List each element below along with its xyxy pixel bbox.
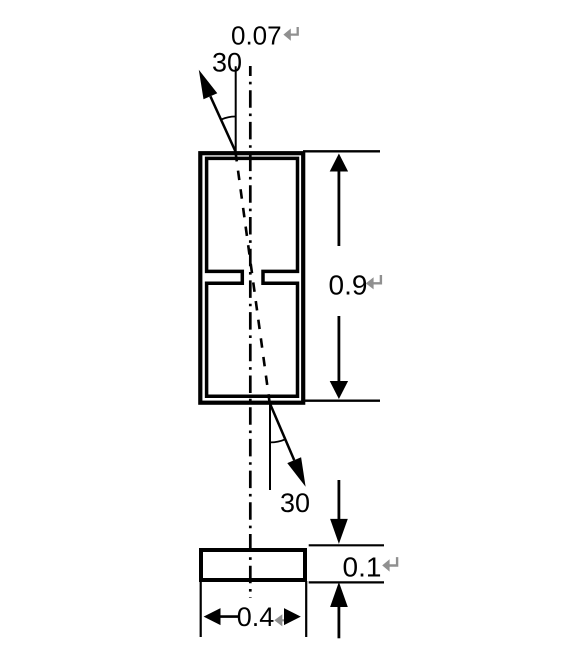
0.4 dimension right arrow	[284, 608, 301, 625]
0.1 upper dimension line with down arrow	[337, 480, 340, 520]
svg-text:0.9: 0.9	[329, 270, 368, 301]
small rectangle (bottom plate)	[201, 550, 305, 580]
svg-text:0.1: 0.1	[343, 552, 382, 583]
outer rectangle	[200, 153, 303, 403]
small return mark after 0.4	[282, 613, 286, 621]
top vertical reference line	[235, 66, 237, 151]
top angle arc	[222, 116, 236, 119]
projection line right (0.4)	[305, 581, 307, 637]
top angle arrowhead	[199, 70, 218, 100]
0.1 lower dimension line with up arrow	[337, 606, 340, 638]
projection line left (0.4)	[200, 581, 202, 637]
return mark after 0.1	[389, 557, 398, 565]
0.9 dimension line upper part with up arrow	[337, 170, 340, 246]
svg-text:0.07: 0.07	[231, 21, 282, 51]
0.4 dimension left arrow	[204, 608, 221, 625]
centerline (vertical dash-dot axis)	[249, 66, 252, 598]
tilted axis (dashed line through body)	[236, 152, 270, 404]
bottom angle arc	[270, 439, 285, 442]
return mark after 0.9	[373, 275, 381, 283]
bottom angle arrowhead	[287, 457, 305, 487]
return mark after 0.07	[290, 27, 298, 35]
extension line bottom (0.9)	[303, 400, 380, 402]
0.9 dimension line lower part with down arrow	[337, 316, 340, 382]
bottom vertical reference line	[269, 404, 271, 490]
svg-text:30: 30	[280, 488, 310, 518]
extension line top (0.9)	[303, 150, 380, 152]
top angle arrow shaft	[210, 96, 235, 151]
bottom angle arrow shaft	[270, 404, 294, 460]
extension line upper (0.1)	[309, 544, 384, 546]
svg-text:0.4: 0.4	[237, 602, 275, 632]
extension line lower (0.1)	[309, 581, 384, 583]
inner body outline with side slots (dog-bone)	[207, 158, 298, 396]
svg-text:30: 30	[212, 48, 242, 78]
